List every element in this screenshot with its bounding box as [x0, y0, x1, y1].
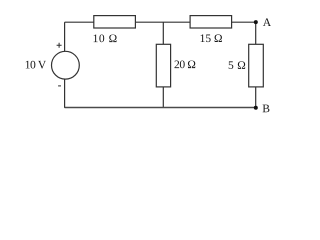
- wire left top to source: [64, 22, 66, 51]
- label 15 ohm: [201, 34, 222, 42]
- label node A: [263, 18, 271, 26]
- wire 5 ohm to node B: [255, 87, 257, 108]
- label 10 ohm: [94, 34, 117, 42]
- minus sign of source: [58, 85, 61, 87]
- node A dot: [254, 20, 258, 24]
- resistor R2 15 ohm body: [190, 16, 232, 28]
- wire source to bottom-left: [64, 79, 66, 108]
- wire R2 to node A: [232, 21, 256, 23]
- plus sign of source: [57, 43, 62, 48]
- label 20 ohm: [175, 60, 196, 68]
- resistor R4 5 ohm body: [249, 44, 264, 87]
- node B dot: [254, 106, 258, 110]
- wire node A down to 5 ohm: [255, 22, 257, 44]
- label 5 ohm: [229, 61, 246, 69]
- resistor R3 20 ohm body: [156, 44, 170, 87]
- wire between R1 and R2: [135, 21, 190, 23]
- label 10 V: [26, 61, 46, 69]
- wire 20 ohm to bottom: [162, 87, 164, 108]
- resistor R1 10 ohm body: [94, 16, 136, 28]
- wire junction down to 20 ohm: [162, 22, 164, 44]
- wire bottom rail: [65, 107, 256, 109]
- label node B: [263, 105, 270, 113]
- wire top-left segment: [65, 21, 94, 23]
- voltage source V1 circle: [52, 51, 80, 79]
